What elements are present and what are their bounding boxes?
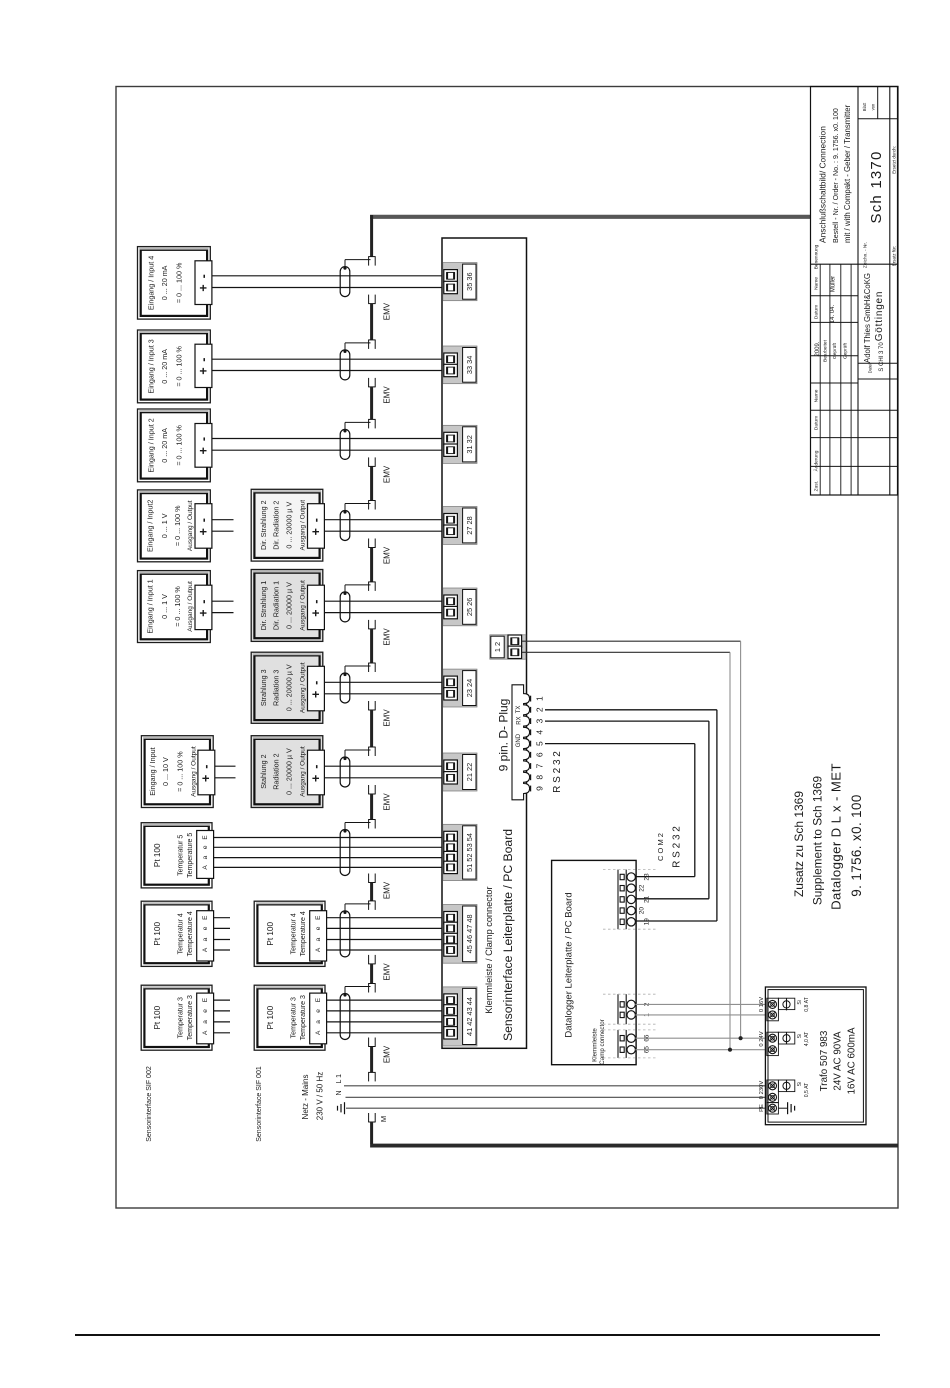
svg-text:M: M <box>379 1116 388 1122</box>
svg-text:A: A <box>315 947 322 952</box>
svg-text:Datum: Datum <box>813 416 819 430</box>
svg-text:Temperature 3: Temperature 3 <box>300 995 307 1040</box>
RS232 wire pin2-19 <box>545 709 717 711</box>
svg-text:Klemmleiste / Clamp connect: Klemmleiste / Clamp connector <box>484 886 494 1013</box>
svg-text:0 ... 1 V: 0 ... 1 V <box>160 513 169 538</box>
svg-text:0 24V: 0 24V <box>759 1031 765 1046</box>
svg-text:A: A <box>202 947 209 952</box>
svg-text:Ausgang / Output: Ausgang / Output <box>190 746 197 797</box>
svg-text:= 0 ... 100 %: = 0 ... 100 % <box>176 751 185 792</box>
svg-text:Temperatur 3: Temperatur 3 <box>291 997 298 1038</box>
svg-text:Datei: Datei <box>868 364 873 374</box>
svg-text:23: 23 <box>644 873 651 881</box>
svg-text:EMV: EMV <box>382 881 391 899</box>
svg-text:Ausgang / Output: Ausgang / Output <box>300 662 307 713</box>
svg-text:Sensorinterface SIF 002: Sensorinterface SIF 002 <box>146 1066 153 1142</box>
svg-text:Si: Si <box>797 1000 803 1005</box>
svg-text:Sensorinterface Leiterplatte: Sensorinterface Leiterplatte / PC Board <box>501 829 515 1041</box>
svg-text:21: 21 <box>644 895 651 903</box>
terminal block 35 36 <box>443 263 477 301</box>
svg-text:Ersatz für:: Ersatz für: <box>892 246 897 267</box>
svg-text:Pt 100: Pt 100 <box>266 1005 275 1029</box>
svg-text:Temperature 3: Temperature 3 <box>187 995 194 1040</box>
svg-text:Datalogger Leiterplatte / PC: Datalogger Leiterplatte / PC Board <box>563 892 574 1037</box>
datalogger 2 wire to trafo 16V <box>635 1003 766 1005</box>
ground symbol (mains PE) <box>344 1102 346 1114</box>
svg-text:14. 04.: 14. 04. <box>830 304 836 323</box>
svg-text:EMV: EMV <box>382 793 391 811</box>
svg-text:+: + <box>309 528 323 535</box>
svg-text:TX: TX <box>516 706 522 714</box>
svg-text:Göttingen: Göttingen <box>874 291 885 342</box>
svg-text:GND: GND <box>516 733 522 747</box>
svg-text:-: - <box>309 765 323 769</box>
svg-text:Temperature 5: Temperature 5 <box>187 833 194 878</box>
svg-text:3: 3 <box>534 718 544 723</box>
svg-text:C O M 2: C O M 2 <box>656 833 665 861</box>
svg-text:Dir. Radiation 2: Dir. Radiation 2 <box>272 501 281 550</box>
svg-text:E: E <box>202 835 209 840</box>
svg-text:-: - <box>196 600 210 604</box>
datalogger 66 wire to trafo 24V <box>635 1037 766 1039</box>
mains wire PE <box>346 1107 766 1109</box>
terminal block 51 52 53 54 <box>443 824 477 880</box>
terminal block 45 46 47 48 <box>443 905 477 964</box>
svg-text:A: A <box>202 1030 209 1035</box>
svg-text:Sensorinterface SIF 001: Sensorinterface SIF 001 <box>256 1066 263 1142</box>
title block frame <box>811 87 898 496</box>
svg-text:e: e <box>202 1009 209 1013</box>
svg-text:16V AC 600mA: 16V AC 600mA <box>846 1027 857 1094</box>
svg-text:4: 4 <box>534 730 544 735</box>
svg-text:0 ... 20000 µ V: 0 ... 20000 µ V <box>285 502 294 549</box>
EMV ferrite / shield, channel 7 <box>370 710 373 747</box>
svg-text:E: E <box>315 997 322 1002</box>
svg-text:a: a <box>202 1020 209 1024</box>
svg-text:e: e <box>315 926 322 930</box>
svg-text:Müller: Müller <box>830 276 836 292</box>
datalogger terminals 1 2 <box>617 994 619 1024</box>
svg-text:= 0 ... 100 %: = 0 ... 100 % <box>173 505 182 546</box>
sensor box Eingang/Input channel 3 <box>138 409 211 482</box>
svg-text:Eingang / Input: Eingang / Input <box>148 747 157 795</box>
sensor box Dir. Strahlung 1 <box>251 570 323 642</box>
svg-text:-: - <box>196 358 210 362</box>
svg-text:4,0 AT: 4,0 AT <box>804 1031 810 1046</box>
svg-text:A: A <box>202 865 209 870</box>
svg-text:21 22: 21 22 <box>465 763 474 782</box>
svg-text:Ausgang / Output: Ausgang / Output <box>300 500 307 551</box>
svg-text:Eingang / Input 1: Eingang / Input 1 <box>145 579 154 633</box>
svg-text:230 V / 50 Hz: 230 V / 50 Hz <box>315 1072 324 1120</box>
svg-text:0 ... 20000 µ V: 0 ... 20000 µ V <box>285 582 294 629</box>
EMV ferrite / shield, channel 10 <box>370 964 373 984</box>
svg-text:Zusatz zu Sch 1369: Zusatz zu Sch 1369 <box>792 791 806 897</box>
svg-text:+: + <box>196 609 210 616</box>
page border frame <box>116 87 898 1209</box>
svg-text:33 34: 33 34 <box>465 356 474 375</box>
datalogger 1 wire to trafo 16V <box>635 1014 766 1016</box>
svg-text:Temperatur 3: Temperatur 3 <box>178 997 185 1038</box>
svg-text:19: 19 <box>644 918 651 926</box>
EMV ferrite / shield, channel 5 <box>370 548 373 582</box>
svg-text:Pt 100: Pt 100 <box>153 1005 162 1029</box>
svg-text:20: 20 <box>639 907 646 915</box>
terminal block 27 28 <box>443 507 477 545</box>
svg-text:a: a <box>202 855 209 859</box>
svg-text:41 42 43 44: 41 42 43 44 <box>465 997 474 1036</box>
power wire board 1 to trafo 16V path <box>522 640 741 642</box>
svg-text:Bearbeitet: Bearbeitet <box>822 339 828 362</box>
sensor box Pt100 Temperatur 5 <box>141 823 212 888</box>
svg-text:2009.: 2009. <box>815 341 821 356</box>
EMV ferrite / shield, channel 9 <box>370 883 373 901</box>
svg-text:Benennung: Benennung <box>813 244 819 269</box>
svg-text:0 ... 1 V: 0 ... 1 V <box>160 594 169 619</box>
svg-text:= 0 ... 100 %: = 0 ... 100 % <box>173 586 182 627</box>
svg-text:E: E <box>202 915 209 920</box>
Datalogger PC board outline <box>552 860 637 1064</box>
terminal block 31 32 <box>443 425 477 463</box>
svg-text:+: + <box>196 447 210 454</box>
svg-text:+: + <box>196 528 210 535</box>
svg-text:Pt 100: Pt 100 <box>153 922 162 946</box>
EMV ferrite / shield, channel 3 <box>370 387 373 420</box>
svg-text:Datalogger D L x - MET: Datalogger D L x - MET <box>829 763 844 910</box>
svg-text:+: + <box>199 775 213 782</box>
svg-text:R S 2 3 2: R S 2 3 2 <box>552 751 563 793</box>
sensor box Stahlung 2 <box>251 736 323 808</box>
svg-text:RX: RX <box>517 716 523 724</box>
svg-text:45 46 47 48: 45 46 47 48 <box>465 914 474 953</box>
svg-text:Name: Name <box>813 277 819 290</box>
svg-text:e: e <box>202 845 209 849</box>
svg-text:Si: Si <box>797 1082 803 1087</box>
svg-text:EMV: EMV <box>382 386 391 404</box>
terminal block 1 2 (board power) <box>490 635 526 659</box>
svg-text:0,5 AT: 0,5 AT <box>804 1082 810 1097</box>
sensor box Eingang/Input channel 2 <box>138 330 211 403</box>
svg-text:Temperature 4: Temperature 4 <box>187 911 194 956</box>
svg-text:= 0 ... 100 %: = 0 ... 100 % <box>175 262 184 303</box>
svg-text:27 28: 27 28 <box>465 516 474 535</box>
svg-text:-: - <box>309 600 323 604</box>
thick cable shield bus (top) <box>370 215 811 219</box>
thick shield line M to right border <box>370 1144 898 1148</box>
svg-text:PE: PE <box>759 1104 765 1112</box>
svg-text:EMV: EMV <box>382 465 391 483</box>
svg-text:Si: Si <box>797 1034 803 1039</box>
svg-text:Trafo 507 983: Trafo 507 983 <box>819 1030 830 1091</box>
svg-text:= 0 ... 100 %: = 0 ... 100 % <box>175 346 184 387</box>
svg-text:Eingang / Input2: Eingang / Input2 <box>145 500 154 552</box>
sensor box Eingang/Input 0-1V channel 5 <box>138 571 211 643</box>
svg-text:Ausgang / Output: Ausgang / Output <box>300 580 307 631</box>
EMV ferrite / shield, channel 6 <box>370 629 373 663</box>
svg-text:Radiation 2: Radiation 2 <box>272 753 281 789</box>
svg-text:E: E <box>315 915 322 920</box>
Trafo 507 983 box <box>765 987 866 1125</box>
terminal block 33 34 <box>443 346 477 384</box>
datalogger 65 wire to trafo 24V <box>635 1049 766 1051</box>
terminal block 21 22 <box>443 753 477 791</box>
svg-text:a: a <box>315 937 322 941</box>
svg-text:-: - <box>196 518 210 522</box>
svg-text:Änderung: Änderung <box>812 450 819 471</box>
svg-text:Zeichn. - Nr.: Zeichn. - Nr. <box>863 242 869 268</box>
svg-text:Blatt: Blatt <box>862 102 867 111</box>
svg-text:Strahlung 3: Strahlung 3 <box>259 669 268 706</box>
terminal block 23 24 <box>443 669 477 707</box>
sensor box Eingang/Input 0-1V channel 4 <box>138 490 211 562</box>
sensor box Pt100 Temperatur 4 (SIF001) <box>254 901 325 966</box>
svg-text:31 32: 31 32 <box>465 435 474 454</box>
svg-text:Ausgang / Output: Ausgang / Output <box>187 581 194 632</box>
svg-text:+: + <box>196 284 210 291</box>
svg-text:EMV: EMV <box>382 963 391 981</box>
power wire board 2 <box>522 651 730 653</box>
svg-text:Klemmleiste: Klemmleiste <box>592 1028 599 1062</box>
svg-text:Datum: Datum <box>813 305 819 319</box>
svg-text:+: + <box>196 367 210 374</box>
svg-text:e: e <box>202 926 209 930</box>
9 pin D-Plug connector <box>512 685 530 800</box>
terminal block 25 26 <box>443 588 477 626</box>
svg-text:7: 7 <box>534 763 544 768</box>
svg-text:0 ... 20 mA: 0 ... 20 mA <box>160 428 169 463</box>
svg-text:Supplement to Sch 1369: Supplement to Sch 1369 <box>810 776 824 905</box>
svg-text:1 2: 1 2 <box>493 642 502 652</box>
svg-text:0 16V: 0 16V <box>759 997 765 1012</box>
svg-text:Eingang / Input 4: Eingang / Input 4 <box>147 256 156 310</box>
svg-text:-: - <box>199 765 213 769</box>
ground symbol (trafo PE) <box>778 1107 787 1109</box>
svg-text:-: - <box>196 437 210 441</box>
EMV ferrite / shield, channel 4 <box>370 466 373 500</box>
svg-text:mit / with Compakt - Geber /: mit / with Compakt - Geber / Transmitter <box>843 104 852 243</box>
svg-text:Temperatur 4: Temperatur 4 <box>178 913 185 954</box>
svg-text:L 1: L 1 <box>336 1074 343 1084</box>
svg-text:0,8 AT: 0,8 AT <box>804 996 810 1011</box>
svg-text:22: 22 <box>639 884 646 892</box>
sensor box Strahlung 3 <box>251 652 323 723</box>
svg-text:+: + <box>309 691 323 698</box>
svg-text:-: - <box>309 518 323 522</box>
svg-text:0 ... 10 V: 0 ... 10 V <box>161 757 170 786</box>
svg-text:9 pin. D- Plug: 9 pin. D- Plug <box>497 699 511 772</box>
sensor box Pt100 Temperatur 4 (SIF002) <box>141 901 212 966</box>
svg-text:N: N <box>336 1090 343 1095</box>
svg-text:Anschlußschaltbild/ Connection: Anschlußschaltbild/ Connection <box>818 126 828 243</box>
svg-text:0 ... 20 mA: 0 ... 20 mA <box>160 349 169 384</box>
bottom rule line <box>75 1334 880 1336</box>
svg-text:25 26: 25 26 <box>465 598 474 617</box>
svg-text:Ausgang / Output: Ausgang / Output <box>300 746 307 797</box>
svg-text:Geprüft: Geprüft <box>842 342 848 359</box>
svg-text:EMV: EMV <box>382 709 391 727</box>
RS232 wire pin5-23 <box>545 743 695 745</box>
sensor box Pt100 Temperatur 3 (SIF001) <box>254 985 325 1050</box>
svg-text:Dir. Strahlung 2: Dir. Strahlung 2 <box>259 500 268 550</box>
svg-text:EMV: EMV <box>382 1045 391 1063</box>
svg-text:Adolf Thies GmbH&CoKG: Adolf Thies GmbH&CoKG <box>863 273 872 363</box>
svg-text:EMV: EMV <box>382 302 391 320</box>
svg-text:R S 2 3 2: R S 2 3 2 <box>672 826 683 868</box>
svg-text:Stahlung 2: Stahlung 2 <box>259 754 268 788</box>
trafo terminal PE with ground <box>767 1103 779 1114</box>
svg-text:1: 1 <box>534 696 544 701</box>
svg-text:a: a <box>315 1020 322 1024</box>
svg-text:35 36: 35 36 <box>465 272 474 291</box>
EMV ferrite / shield, channel 1 <box>368 256 375 258</box>
svg-text:Name: Name <box>813 389 819 402</box>
svg-text:Temperatur 4: Temperatur 4 <box>291 913 298 954</box>
mains wire L1 <box>344 1085 766 1087</box>
svg-text:Eingang / Input 2: Eingang / Input 2 <box>147 418 156 472</box>
EMV ferrite / shield, channel 2 <box>370 304 373 340</box>
svg-text:Geprüft: Geprüft <box>832 342 838 359</box>
svg-text:Temperatur 5: Temperatur 5 <box>178 835 185 876</box>
sensor box Dir. Strahlung 2 <box>251 489 323 561</box>
svg-text:Bestell - Nr. / Order - No. :: Bestell - Nr. / Order - No. : 9. 1756. x… <box>832 108 840 243</box>
trafo terminals 0 24V with fuse 4,0AT <box>767 1032 779 1055</box>
svg-text:9: 9 <box>534 786 544 791</box>
svg-text:Netz - Mains: Netz - Mains <box>301 1075 310 1120</box>
Sensorinterface PC board outline <box>442 238 527 1048</box>
svg-text:a: a <box>202 937 209 941</box>
datalogger terminals 65 66 <box>617 1030 619 1058</box>
terminal block 41 42 43 44 <box>443 987 477 1046</box>
svg-text:0 230V: 0 230V <box>759 1081 765 1100</box>
sensor box Pt100 Temperatur 3 (SIF002) <box>141 985 212 1050</box>
svg-text:Dir. Strahlung 1: Dir. Strahlung 1 <box>259 581 268 631</box>
EMV shield at mains <box>370 1047 373 1073</box>
svg-text:e: e <box>315 1009 322 1013</box>
svg-text:23 24: 23 24 <box>465 679 474 698</box>
svg-text:Pt 100: Pt 100 <box>266 922 275 946</box>
svg-text:EMV: EMV <box>382 546 391 564</box>
svg-text:Dir. Radiation 1: Dir. Radiation 1 <box>272 581 281 630</box>
trafo terminals 0 16V with fuse 0,8AT <box>767 998 779 1021</box>
svg-text:24V AC 90VA: 24V AC 90VA <box>832 1031 843 1091</box>
svg-text:EMV: EMV <box>382 628 391 646</box>
svg-text:von: von <box>871 103 876 110</box>
svg-text:Sch 1370: Sch 1370 <box>868 151 885 224</box>
svg-text:Ausgang / Output: Ausgang / Output <box>187 500 194 551</box>
svg-text:-: - <box>309 681 323 685</box>
svg-text:0 ... 20000 µ V: 0 ... 20000 µ V <box>285 748 294 795</box>
svg-text:+: + <box>309 775 323 782</box>
svg-text:E: E <box>202 997 209 1002</box>
svg-text:+: + <box>309 609 323 616</box>
svg-text:2: 2 <box>534 707 544 712</box>
svg-text:A: A <box>315 1030 322 1035</box>
RS232 wire pin3-21 <box>545 720 709 722</box>
EMV ferrite / shield, channel 8 <box>370 794 373 820</box>
sensor box Eingang/Input 0-10V <box>141 736 213 808</box>
trafo terminals 0 230V with fuse 0,5AT <box>767 1080 779 1103</box>
svg-text:9. 1756. x0. 100: 9. 1756. x0. 100 <box>849 794 864 896</box>
svg-text:= 0 ... 100 %: = 0 ... 100 % <box>175 425 184 466</box>
svg-text:Temperature 4: Temperature 4 <box>300 911 307 956</box>
svg-text:Eingang / Input 3: Eingang / Input 3 <box>147 339 156 393</box>
datalogger COM2 connector 19-23 <box>617 870 619 930</box>
svg-text:51 52 53 54: 51 52 53 54 <box>465 833 474 872</box>
mains wire N <box>346 1096 767 1098</box>
svg-text:Pt 100: Pt 100 <box>153 843 162 867</box>
svg-text:0 ... 20000 µ V: 0 ... 20000 µ V <box>285 664 294 711</box>
svg-text:Zust.: Zust. <box>813 481 819 492</box>
sensor box Eingang/Input channel 1 <box>138 247 211 320</box>
svg-text:5: 5 <box>534 741 544 746</box>
svg-text:-: - <box>196 274 210 278</box>
svg-text:S CHI 3 70: S CHI 3 70 <box>879 342 885 372</box>
svg-text:6: 6 <box>534 752 544 757</box>
svg-text:Ersetzt durch:: Ersetzt durch: <box>892 146 897 174</box>
svg-text:Radiation 3: Radiation 3 <box>272 670 281 706</box>
svg-text:8: 8 <box>534 775 544 780</box>
svg-text:0 ... 20 mA: 0 ... 20 mA <box>160 265 169 300</box>
